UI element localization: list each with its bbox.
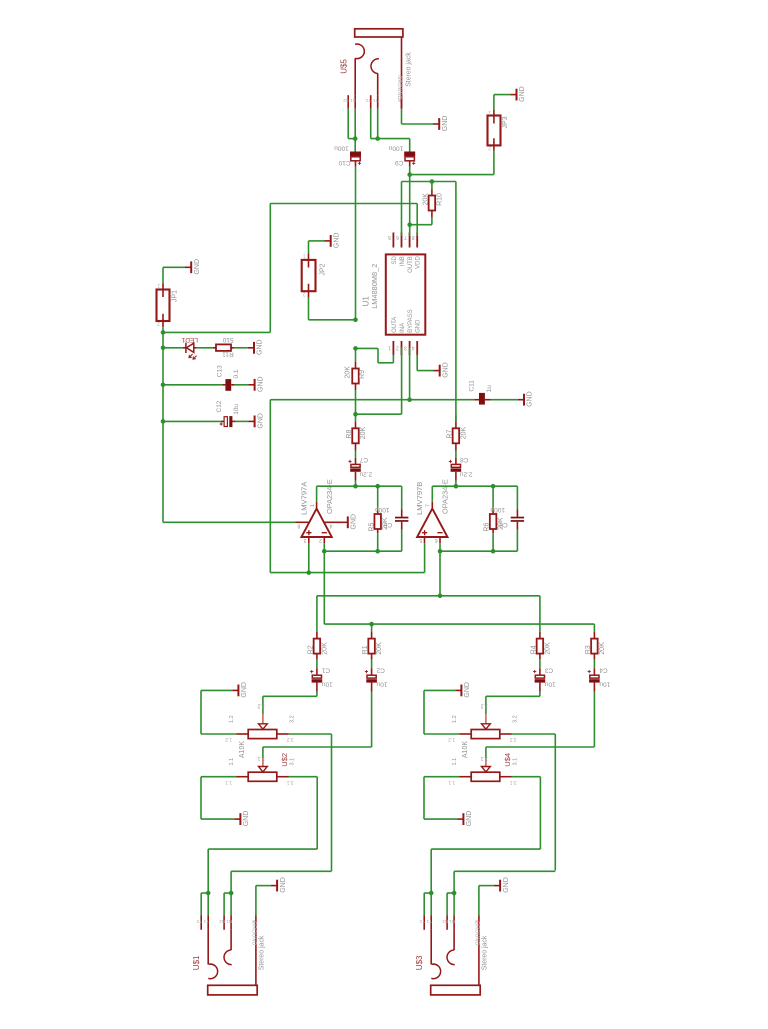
svg-text:20K: 20K (321, 642, 328, 655)
wire R10 bottom to OUTB rail (410, 224, 432, 226)
resistor R6 feedback (491, 484, 496, 489)
svg-text:20K: 20K (599, 642, 606, 655)
svg-text:1.1: 1.1 (448, 779, 455, 785)
svg-text:OPA234-E: OPA234-E (325, 479, 334, 514)
wire B -input (439, 543, 441, 596)
svg-text:1: 1 (488, 109, 491, 115)
wire U$5 ring tie to C9 (371, 138, 410, 140)
wire OUTB node from C9 (409, 167, 411, 175)
wire INB to R7 rail (455, 182, 457, 422)
svg-text:R1: R1 (226, 919, 232, 924)
svg-text:10u: 10u (321, 680, 332, 687)
U$4 s1 wiper (485, 696, 487, 714)
potentiometer U$2 section 2 box (248, 772, 277, 781)
wire C11 to GND (491, 399, 518, 401)
svg-text:6: 6 (396, 234, 399, 240)
svg-text:6: 6 (435, 537, 438, 543)
svg-text:S1: S1 (350, 98, 356, 103)
U$5 pin wires green (347, 109, 349, 139)
svg-text:C4: C4 (599, 666, 608, 673)
svg-text:GND: GND (466, 811, 473, 827)
junction C12 branch (161, 419, 166, 424)
svg-text:20K: 20K (544, 642, 551, 655)
ground GND at JP3 (510, 89, 516, 101)
capacitor C10 (350, 152, 361, 157)
svg-text:U$5: U$5 (340, 59, 349, 74)
svg-text:GND: GND (280, 877, 287, 893)
svg-text:GND: GND (503, 877, 510, 893)
svg-text:2.2: 2.2 (480, 703, 487, 709)
svg-text:1.1: 1.1 (229, 758, 235, 766)
U$5 pins (347, 95, 349, 109)
wire bottom line R6 (440, 550, 517, 552)
junction U$5 ring (375, 136, 380, 141)
svg-text:S: S (398, 98, 401, 103)
capacitor C1 (316, 668, 318, 675)
diode LED1 (186, 343, 194, 353)
svg-text:U$3: U$3 (415, 955, 424, 970)
potentiometer U$4 section 1 box (471, 730, 500, 739)
resistor R3 (593, 632, 595, 639)
ground GND at U$5 sleeve (433, 118, 439, 130)
svg-text:GND: GND (257, 339, 264, 355)
ground GND at C11 (518, 394, 524, 406)
U$1 tip hook (208, 964, 217, 979)
svg-text:R1: R1 (362, 645, 369, 654)
U$3 sleeve line (478, 916, 480, 986)
wire bias line to +inputs (270, 572, 424, 574)
wire U$1 ring up (230, 871, 232, 893)
svg-text:C13: C13 (217, 365, 224, 377)
svg-text:100p: 100p (490, 506, 505, 513)
wire U$3 tip tie (424, 892, 431, 894)
capacitor C5 100p (401, 486, 403, 509)
U$3 pins (423, 916, 425, 930)
svg-text:3: 3 (404, 345, 407, 351)
svg-text:GND: GND (442, 362, 449, 378)
svg-text:1: 1 (157, 282, 160, 288)
ground GND at U$1 (271, 880, 277, 892)
wire to LED1 (163, 347, 183, 349)
wire OUTB rail down (409, 175, 411, 248)
svg-text:INA: INA (400, 323, 406, 333)
svg-text:LED1: LED1 (181, 336, 198, 343)
svg-text:20K: 20K (460, 427, 467, 440)
header JP3 (488, 116, 501, 146)
svg-text:JP1: JP1 (172, 290, 179, 302)
junction V+ branch (161, 330, 166, 335)
svg-text:1: 1 (303, 252, 306, 258)
stereo jack U$3 body (431, 985, 481, 995)
svg-text:1.2: 1.2 (225, 736, 232, 742)
ground GND at JP1 (185, 261, 191, 273)
resistor R8 (355, 415, 357, 422)
resistor R4 (539, 632, 541, 639)
svg-text:GND: GND (351, 514, 358, 530)
svg-text:10u: 10u (599, 680, 610, 687)
junction R10/OUTB (407, 222, 412, 227)
svg-text:3.2: 3.2 (287, 736, 294, 742)
capacitor C4 (593, 668, 595, 675)
svg-text:R2: R2 (219, 919, 225, 924)
svg-text:1.2: 1.2 (452, 715, 458, 723)
capacitor C9 (404, 152, 415, 157)
wire U$5 tip to C10 (354, 139, 356, 152)
svg-text:10u: 10u (544, 680, 555, 687)
wire output line R5 (316, 486, 318, 502)
svg-text:1.2: 1.2 (448, 736, 455, 742)
op-amp LMV797A power pins (295, 521, 309, 523)
stereo jack U$5 body (355, 29, 403, 37)
svg-text:1.1: 1.1 (225, 779, 232, 785)
svg-text:LMV797A: LMV797A (299, 481, 308, 515)
junction U$1 ring (229, 891, 234, 896)
stereo jack U$1 body (208, 985, 258, 995)
U$3 ring line (453, 930, 455, 950)
svg-text:R8: R8 (346, 430, 353, 439)
svg-text:LMV797B: LMV797B (415, 482, 424, 515)
svg-text:GND: GND (442, 116, 449, 132)
svg-text:R11: R11 (222, 350, 234, 357)
junction OUTA branch (353, 346, 358, 351)
svg-text:T2: T2 (365, 98, 371, 103)
wire VDD down to pin8 (416, 204, 418, 234)
svg-text:0.1: 0.1 (233, 369, 240, 378)
svg-text:2.2u: 2.2u (459, 470, 472, 477)
wire OUTA rail from C10 (355, 167, 357, 320)
svg-text:T2: T2 (196, 919, 202, 924)
svg-text:3.2: 3.2 (510, 736, 517, 742)
wire to C13 (163, 384, 222, 386)
svg-text:C6: C6 (499, 521, 508, 528)
svg-text:3.2: 3.2 (290, 715, 296, 723)
ground GND at U1 pin4 (434, 365, 440, 377)
U$3 tip hook (431, 964, 440, 979)
U1 top pins 5-8 (392, 233, 394, 248)
svg-text:LM4880M8_2: LM4880M8_2 (370, 264, 379, 309)
svg-text:OPA234-E: OPA234-E (441, 479, 450, 514)
U$4 s1 pins (460, 733, 472, 735)
resistor R9 (355, 362, 357, 369)
capacitor C6 100p (516, 486, 518, 509)
svg-text:C9: C9 (395, 159, 404, 166)
svg-text:C11: C11 (468, 380, 475, 392)
junction A -input (322, 549, 327, 554)
svg-text:C10: C10 (338, 159, 350, 166)
svg-text:GND: GND (333, 233, 340, 249)
wire mix line2 (A) (324, 623, 594, 625)
wire OUTA node jog to pin1 (356, 347, 379, 349)
svg-text:GND: GND (257, 413, 264, 429)
svg-text:T1: T1 (203, 919, 209, 924)
resistor R10 with feedback wires (431, 182, 433, 190)
svg-text:T1: T1 (426, 919, 432, 924)
svg-text:20K: 20K (423, 193, 430, 206)
wire pin4 GND (416, 355, 418, 371)
U$5 tip contact hook (355, 44, 364, 59)
svg-text:8: 8 (412, 234, 415, 240)
svg-text:GND: GND (194, 259, 201, 275)
U$3 ring hook (447, 950, 455, 965)
resistor R5 feedback (375, 484, 380, 489)
U$4 s2 wiper (485, 747, 487, 758)
junction C lead on output line (454, 484, 459, 489)
wire C4 to pot wiper (593, 692, 595, 747)
svg-text:JP3: JP3 (502, 116, 509, 128)
capacitor C2 (371, 668, 373, 675)
U$1 sleeve line (255, 916, 257, 986)
C10 lead (355, 161, 357, 167)
ground GND U$2 bottom (234, 813, 240, 825)
wire A -input (323, 543, 325, 624)
svg-text:R5: R5 (368, 523, 375, 532)
junction U$5 tip (353, 136, 358, 141)
svg-text:Stereo jack: Stereo jack (405, 52, 412, 87)
junction R1 line2 (369, 622, 374, 627)
svg-text:7: 7 (404, 234, 407, 240)
wire bottom line R5 (324, 550, 401, 552)
svg-text:2: 2 (488, 144, 491, 150)
svg-text:SD: SD (392, 256, 398, 265)
svg-text:2.2: 2.2 (257, 703, 264, 709)
ground GND U$2 top (232, 685, 238, 697)
svg-text:1.1: 1.1 (452, 758, 458, 766)
header JP2 (302, 260, 316, 291)
wire pin2 INA down (401, 348, 403, 415)
capacitor C11 with leads (474, 399, 479, 401)
svg-text:3.1: 3.1 (510, 779, 517, 785)
junction U$3 tip (429, 891, 434, 896)
svg-text:T1: T1 (372, 98, 378, 103)
ground GND at op-amp V- (342, 516, 348, 528)
ground GND at C12 (248, 416, 254, 428)
wire U$3 sleeve to GND (478, 886, 480, 916)
svg-text:C3: C3 (544, 666, 553, 673)
wire U$4 s2 left to GND (424, 776, 460, 778)
junction LED branch (161, 346, 166, 351)
svg-text:A10K: A10K (462, 741, 469, 758)
junction C lead on output line (353, 484, 358, 489)
svg-text:S: S (252, 919, 255, 924)
svg-text:C12: C12 (216, 400, 223, 412)
wire INB to pin6 (401, 182, 403, 234)
svg-text:GND: GND (257, 376, 264, 392)
svg-text:R3: R3 (585, 645, 592, 654)
svg-text:GND: GND (416, 319, 422, 333)
resistor R2 (316, 632, 318, 639)
U$3 tip line (430, 930, 432, 965)
R11 to GND wire (231, 347, 234, 349)
U$2 s2 pins (237, 776, 249, 778)
svg-text:2.2u: 2.2u (359, 470, 372, 477)
wire C3 to pot wiper (539, 692, 541, 697)
svg-text:R2: R2 (442, 919, 448, 924)
wire output line R6 (431, 486, 433, 502)
svg-text:2: 2 (396, 345, 399, 351)
IC U1 box (386, 254, 426, 334)
wire V+ rail from JP1 pin2 (162, 327, 164, 522)
svg-text:100u: 100u (388, 145, 403, 152)
U1 bottom pins 1-4 (392, 341, 394, 355)
wire U$1 tip tie (201, 892, 208, 894)
svg-text:R9: R9 (359, 370, 366, 379)
svg-text:BYPASS: BYPASS (408, 309, 414, 333)
wire C1 to pot wiper (316, 692, 318, 697)
svg-text:5: 5 (388, 234, 391, 240)
ground GND U$4 top (455, 685, 461, 697)
junction BYPASS/bus (407, 397, 412, 402)
U$2 s1 wiper (262, 696, 264, 714)
wire to C12 (163, 420, 221, 422)
svg-text:R10: R10 (437, 193, 444, 206)
wire U$2 s2 left to GND (201, 776, 237, 778)
svg-text:100u: 100u (334, 145, 349, 152)
wire pin7 OUTB overlap (409, 233, 411, 237)
svg-text:1: 1 (310, 504, 316, 507)
wire U$4 s2 right to jack tip (512, 776, 541, 778)
wire pin3 BYPASS down (409, 348, 411, 400)
svg-text:INB: INB (400, 256, 406, 266)
wire U$3 ring tie (447, 892, 454, 894)
svg-text:4: 4 (412, 345, 415, 351)
junction B line1 (438, 594, 443, 599)
svg-text:U$4: U$4 (503, 753, 512, 767)
svg-text:3.1: 3.1 (513, 758, 519, 766)
ground GND at JP2 (325, 235, 331, 247)
U$5 sleeve contact line (401, 37, 403, 109)
svg-text:R6: R6 (484, 523, 491, 532)
svg-text:Stereo jack: Stereo jack (482, 935, 489, 970)
C9 lead (409, 161, 411, 167)
wire C2 to pot wiper (371, 692, 373, 747)
svg-text:2: 2 (303, 291, 306, 297)
svg-text:8: 8 (297, 523, 300, 529)
svg-text:20K: 20K (376, 642, 383, 655)
svg-text:R1: R1 (449, 919, 455, 924)
svg-text:20K: 20K (345, 366, 352, 379)
svg-text:R4: R4 (531, 645, 538, 654)
junction JP2/OUTA (353, 318, 358, 323)
capacitor C13 (225, 379, 231, 391)
U$1 pins (200, 916, 202, 930)
wire U$2 s1 right to jack ring (289, 733, 332, 735)
ground GND at U$3 (494, 880, 500, 892)
capacitor C7 (355, 458, 357, 465)
svg-text:1u: 1u (486, 385, 493, 393)
resistor R7 (455, 415, 457, 422)
svg-text:10u: 10u (376, 680, 387, 687)
svg-text:2.1: 2.1 (480, 755, 487, 761)
junction U$3 ring (452, 891, 457, 896)
potentiometer U$4 section 2 box (471, 772, 500, 781)
svg-text:C5: C5 (384, 521, 393, 528)
svg-text:C1: C1 (321, 666, 330, 673)
svg-text:3: 3 (303, 537, 306, 543)
wire V+ to opamp pin8 (163, 521, 295, 523)
wire JP2 pin1 to GND (308, 241, 310, 254)
wire U$4 s1 right to jack ring (512, 733, 556, 735)
svg-text:GND: GND (241, 682, 248, 698)
U$5 ring contact hook (371, 59, 379, 74)
U$4 s2 pins (460, 776, 472, 778)
svg-text:T2: T2 (419, 919, 425, 924)
svg-text:3.1: 3.1 (290, 758, 296, 766)
svg-text:S: S (475, 919, 478, 924)
op-amp LMV797A (301, 509, 331, 537)
svg-text:U$2: U$2 (280, 753, 289, 767)
junction C9/JP3 (407, 172, 412, 177)
svg-text:C2: C2 (376, 666, 385, 673)
svg-text:510: 510 (222, 336, 233, 343)
svg-text:R2: R2 (308, 645, 315, 654)
wire U$2 s1 left to GND (201, 733, 237, 735)
svg-text:10u: 10u (233, 404, 240, 415)
wire INB line (402, 181, 456, 183)
svg-text:A10K: A10K (239, 741, 246, 758)
svg-text:7: 7 (426, 504, 432, 507)
svg-text:GND: GND (464, 682, 471, 698)
U$5 sleeve wire to GND (401, 109, 403, 124)
svg-text:1: 1 (388, 345, 391, 351)
ground GND at C13 (248, 379, 254, 391)
svg-text:OUTB: OUTB (408, 256, 414, 273)
LED to R11 lead (194, 347, 197, 349)
svg-text:20K: 20K (360, 427, 367, 440)
svg-text:JP2: JP2 (319, 263, 326, 275)
potentiometer U$2 section 1 box (248, 730, 277, 739)
wire JP2 pin2 to OUTA rail (308, 298, 310, 320)
junction INA/R9/R8 (353, 412, 358, 417)
U$1 tip line (207, 930, 209, 965)
wire U$3 tip up (430, 849, 432, 893)
header JP1 (157, 290, 170, 322)
junction R10/INB (430, 179, 435, 184)
svg-text:U$1: U$1 (192, 955, 201, 970)
C13 to GND wire (231, 384, 234, 386)
junction A +input (307, 570, 312, 575)
ground GND U$4 bottom (457, 813, 463, 825)
wire U$5 tip tie (348, 138, 355, 140)
wire U$1 sleeve to GND (255, 886, 257, 916)
svg-text:S2: S2 (343, 98, 349, 103)
svg-text:5: 5 (419, 537, 422, 543)
wire U$1 tip up (207, 849, 209, 893)
svg-text:GND: GND (527, 391, 534, 407)
wire V+ branch to VDD (163, 331, 270, 333)
resistor R1 (371, 632, 373, 639)
wire U$2 s2 right to jack tip (289, 776, 318, 778)
junction B -input (438, 549, 443, 554)
svg-text:3.2: 3.2 (513, 715, 519, 723)
op-amp LMV797B (417, 509, 447, 537)
U$2 s2 wiper (262, 747, 264, 758)
svg-text:GND: GND (519, 86, 526, 102)
junction C13 branch (161, 383, 166, 388)
ground GND at R11 (248, 342, 254, 354)
wire C9 junction to JP3 (410, 174, 494, 176)
U$5 tip contact line (354, 58, 356, 95)
svg-text:GND: GND (243, 811, 250, 827)
LED1 light arrows (189, 354, 197, 359)
U$1 ring line (230, 930, 232, 950)
svg-text:GROUND: GROUND (396, 75, 402, 99)
svg-text:R7: R7 (447, 430, 454, 439)
wire U$4 s1 left to GND (424, 733, 460, 735)
svg-text:VDD: VDD (416, 256, 422, 269)
U$5 ring contact line (377, 73, 379, 95)
svg-text:4: 4 (329, 523, 332, 529)
svg-text:100p: 100p (375, 506, 390, 513)
